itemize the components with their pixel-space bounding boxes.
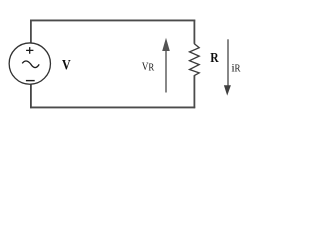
ac source minus sign <box>26 80 35 82</box>
svg-text:R: R <box>148 62 154 74</box>
wire right top <box>193 20 195 44</box>
wire left top stub <box>30 20 32 44</box>
svg-text:R: R <box>210 50 219 65</box>
wire bottom <box>30 106 195 108</box>
wire top <box>30 19 195 21</box>
ac source sine wave <box>22 61 39 68</box>
svg-text:R: R <box>235 63 241 75</box>
wire left bottom stub <box>30 84 32 108</box>
resistor R zigzag <box>190 44 200 76</box>
arrow VR (voltage across R, pointing up) <box>162 38 170 93</box>
arrow iR (current through R, pointing down) <box>224 39 231 95</box>
svg-text:V: V <box>62 56 71 73</box>
wire right bottom <box>193 75 195 108</box>
ac source plus sign <box>26 47 33 54</box>
ac source U1 circle <box>9 43 50 84</box>
